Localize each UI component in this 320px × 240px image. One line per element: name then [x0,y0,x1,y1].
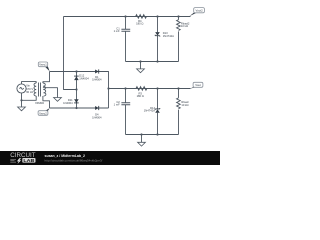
resistor R3 [136,87,147,91]
svg-text:60 Hz: 60 Hz [26,90,34,94]
wire C1 bottom lead [125,31,127,61]
flag Vout2 [189,8,204,17]
resistor R4 [136,15,147,19]
wire C2 top lead [125,89,127,103]
svg-text:Vout: Vout [195,83,201,87]
svg-text:Vin: Vin [26,83,30,87]
svg-text:10 kΩ: 10 kΩ [181,103,188,107]
wire bottom stage ground stub [141,135,143,143]
diode D11 [74,99,79,103]
junction D12 cathode / secondary top net [75,70,77,72]
svg-text:1N4004: 1N4004 [79,76,89,80]
svg-text:180 Ω: 180 Ω [137,94,144,98]
footer text [45,154,103,163]
diode D4 [95,106,99,110]
svg-text:susan_z / MidtermLab_2: susan_z / MidtermLab_2 [45,154,86,158]
wire D14 leads [157,89,159,135]
wire RLoad leads [178,89,180,135]
junction source bottom [20,99,22,101]
wire RLoad2 leads [178,17,180,62]
wire source ground stem [21,100,23,107]
junction D13 top rail [156,15,158,17]
svg-text:1N4004: 1N4004 [92,115,102,119]
wire secondary bottom net [50,107,109,109]
svg-text:LAB: LAB [23,158,34,163]
wire diode chain vertical [76,72,78,109]
zener diode D13 [155,32,160,37]
junction D14 bottom rail [156,133,158,135]
svg-text:1N4004: 1N4004 [63,101,73,105]
flag Vsec1 [38,62,49,71]
resistor RLoad2 (load) [177,20,181,31]
junction D12-D11 midpoint / -V jog [75,88,77,90]
wire source top lead [22,82,37,84]
svg-text:10 kΩ: 10 kΩ [181,24,188,28]
junction D11 cathode / secondary bottom net [75,107,77,109]
wire +V rail [109,88,191,90]
wire C2 bottom lead [125,105,127,135]
wire top stage ground stub [140,62,142,69]
zener diode D14 [155,108,160,113]
diode D1 [95,69,99,73]
wire secondary top net [50,72,109,109]
wire top rail [64,16,191,18]
flag Vsec2 [38,108,49,115]
capacitor C1 [121,29,130,31]
svg-text:1N4004: 1N4004 [92,78,102,82]
wire bottom stage bottom rail [126,134,179,136]
ground (center tap) [54,98,62,102]
flag Vout [189,82,203,89]
svg-text:1N4742A: 1N4742A [163,34,174,38]
junction C2 top [124,87,126,89]
ground (source) [18,107,26,111]
junction D14 top rail [156,87,158,89]
svg-text:1N4742A: 1N4742A [144,109,155,113]
junction RLoad2 top [177,15,179,17]
ground (top stage) [137,69,145,73]
wire D13 leads [157,17,159,62]
CircuitLab logo [10,152,35,164]
wire C1 top lead [125,17,127,30]
svg-text:XFMR2: XFMR2 [35,101,45,105]
wire left tall rail [64,17,77,90]
svg-text:1 mF: 1 mF [114,103,120,107]
junction bottom stage ground [140,133,142,135]
svg-text:Vsec1: Vsec1 [39,63,47,67]
capacitor C2 [121,103,130,105]
svg-text:180 Ω: 180 Ω [136,22,143,26]
wire center tap lead [43,88,58,98]
footer bar [0,151,220,165]
junction D13 bottom rail [156,60,158,62]
wire secondary top lead [43,72,50,84]
wire top stage bottom rail [126,61,179,63]
svg-text:1 mF: 1 mF [114,29,120,33]
diode D12 [74,76,79,80]
wire source bottom lead [22,93,37,100]
junction RLoad top [177,87,179,89]
ground (bottom stage) [138,142,146,146]
svg-text:http://circuitlab.com/circuit/: http://circuitlab.com/circuit/86wq54vkk2… [45,158,103,162]
voltage source V1 Vin [17,84,26,93]
svg-text:Vsec2: Vsec2 [39,111,47,115]
junction C1 top [124,15,126,17]
wire secondary bottom lead [43,96,50,108]
transformer XFMR2 [34,83,46,97]
junction D1-D4 cathodes / +V rail [107,87,109,89]
junction top stage ground [139,60,141,62]
svg-text:Vout2: Vout2 [196,8,204,12]
resistor RLoad (load) [177,98,181,109]
